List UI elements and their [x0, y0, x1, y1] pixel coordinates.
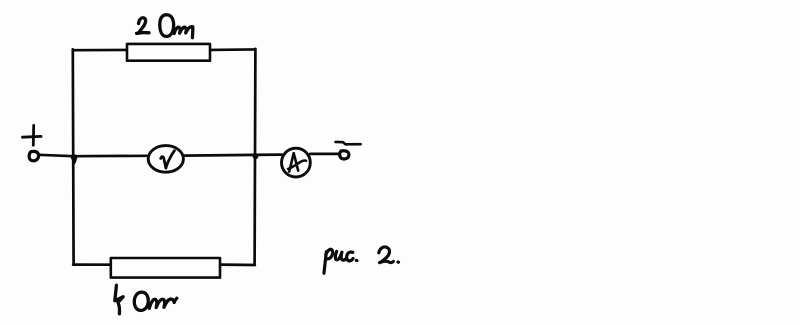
ammeter A1 [282, 148, 311, 177]
wire from + terminal to voltmeter [39, 155, 149, 156]
wire bottom-right rail [220, 263, 255, 266]
wire bottom-left rail [73, 263, 111, 266]
wire from ammeter to - terminal [310, 153, 339, 156]
wire top-left rail [73, 49, 127, 52]
voltmeter V1 [148, 146, 183, 173]
caption рис. 2. [324, 247, 398, 273]
wire left vertical branch [71, 49, 74, 264]
terminal - (right) [336, 142, 361, 159]
wire from voltmeter to ammeter [183, 155, 282, 156]
label 4 Ом [115, 285, 177, 314]
terminal + (left) [23, 125, 42, 160]
resistor R2 4 Ом (bottom) [111, 258, 220, 278]
wire right vertical branch [253, 49, 256, 265]
wire top-right rail [210, 48, 255, 51]
node junction left [71, 154, 78, 165]
resistor R1 2 Ом (top) [127, 44, 210, 61]
label 2 Ом [137, 15, 193, 38]
node junction right [253, 153, 259, 159]
